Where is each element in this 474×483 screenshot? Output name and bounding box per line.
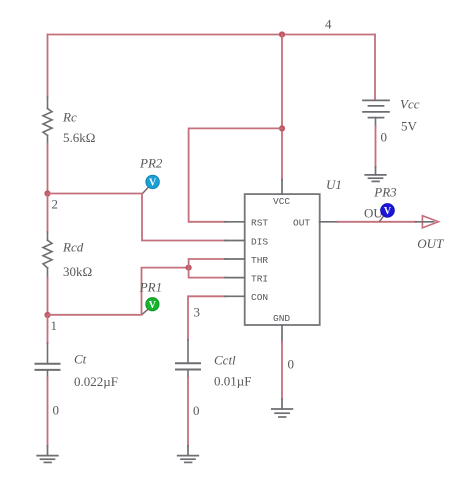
wire THR pin branch xyxy=(189,259,226,268)
wire battery to ground xyxy=(375,126,377,167)
capacitor Ct xyxy=(36,343,60,377)
svg-text:CON: CON xyxy=(251,292,268,303)
svg-text:5V: 5V xyxy=(401,119,418,134)
wire Rc to node 2 xyxy=(47,144,49,194)
svg-text:THR: THR xyxy=(251,255,268,266)
svg-text:0: 0 xyxy=(193,403,200,418)
probe PR1 xyxy=(146,298,159,311)
pin stub RST xyxy=(225,221,245,223)
wire CON pin to Cctl net 3 xyxy=(188,296,226,339)
svg-text:Vcc: Vcc xyxy=(400,97,420,112)
svg-text:Cctl: Cctl xyxy=(214,353,236,368)
resistor Rcd xyxy=(43,232,52,278)
svg-text:5.6kΩ: 5.6kΩ xyxy=(63,130,95,145)
wire battery drop xyxy=(374,35,376,100)
svg-text:DIS: DIS xyxy=(251,236,268,247)
wire node2 to PR2 corner and DIS pin xyxy=(48,194,227,241)
pin stub OUT xyxy=(320,221,338,223)
wire top rail net 4 xyxy=(48,34,376,36)
wire node1 to PR1 corner up to THR/TRI junction xyxy=(48,268,189,315)
wire RST branch xyxy=(189,128,282,221)
pin stub TRI xyxy=(225,277,245,279)
junction dot node 1 xyxy=(44,312,50,318)
svg-text:PR1: PR1 xyxy=(139,280,162,295)
junction dot net4/VCC xyxy=(279,31,285,37)
svg-text:OUT: OUT xyxy=(293,217,310,228)
output connector arrow xyxy=(422,216,438,228)
svg-text:0.022µF: 0.022µF xyxy=(74,374,118,389)
svg-text:30kΩ: 30kΩ xyxy=(63,264,92,279)
svg-text:2: 2 xyxy=(52,197,59,212)
svg-text:0: 0 xyxy=(381,130,388,145)
svg-text:PR2: PR2 xyxy=(139,156,163,171)
probe PR2 xyxy=(146,175,159,188)
svg-text:V: V xyxy=(149,300,157,311)
svg-text:0.01µF: 0.01µF xyxy=(214,374,251,389)
svg-text:4: 4 xyxy=(325,17,332,32)
svg-text:0: 0 xyxy=(53,403,60,418)
probe PR3 lead xyxy=(380,216,384,222)
svg-text:U1: U1 xyxy=(326,177,342,192)
pin stub DIS xyxy=(225,240,245,242)
wire left rail top xyxy=(47,35,49,98)
wire Ct to ground xyxy=(47,377,49,446)
wire node1 down to Ct xyxy=(47,315,49,343)
ground Cctl xyxy=(178,446,199,462)
capacitor Cctl xyxy=(176,340,200,377)
svg-text:3: 3 xyxy=(194,305,201,320)
wire Cctl to ground xyxy=(187,377,189,446)
svg-text:VCC: VCC xyxy=(273,196,290,207)
ground U1 xyxy=(272,399,293,417)
svg-text:GND: GND xyxy=(273,313,290,324)
pin stub GND xyxy=(281,325,283,342)
svg-text:1: 1 xyxy=(51,318,58,333)
wire node2 down to Rcd xyxy=(47,194,49,233)
ground battery xyxy=(365,167,386,181)
svg-text:V: V xyxy=(149,178,157,189)
pin stub CON xyxy=(225,295,245,297)
svg-text:RST: RST xyxy=(251,217,268,228)
wire Rcd to node 1 xyxy=(47,278,49,316)
svg-text:Rc: Rc xyxy=(62,110,77,125)
probe PR1 lead xyxy=(143,309,149,314)
pin stub THR xyxy=(225,258,245,260)
svg-text:Ct: Ct xyxy=(74,352,87,367)
svg-text:V: V xyxy=(384,206,392,217)
resistor Rc xyxy=(43,97,52,143)
svg-text:Rcd: Rcd xyxy=(62,240,84,255)
probe PR3 xyxy=(381,204,395,218)
junction dot node 2 xyxy=(44,190,50,196)
ground Ct xyxy=(37,446,58,462)
battery Vcc xyxy=(363,100,389,126)
svg-text:TRI: TRI xyxy=(251,273,268,284)
svg-text:0: 0 xyxy=(288,357,295,372)
junction dot THR/TRI xyxy=(186,265,192,271)
wire OUT to connector xyxy=(338,221,416,223)
wire VCC vertical xyxy=(281,35,283,180)
pin stub VCC xyxy=(281,180,283,195)
junction dot RST branch xyxy=(279,125,285,131)
output connector gray stub xyxy=(416,221,434,223)
svg-text:PR3: PR3 xyxy=(373,185,397,200)
op-amp U1 555 timer box xyxy=(245,194,320,325)
wire TRI pin branch xyxy=(189,268,226,278)
wire GND to ground xyxy=(281,342,283,400)
svg-text:OUT: OUT xyxy=(417,236,444,251)
probe PR2 lead xyxy=(143,187,149,193)
